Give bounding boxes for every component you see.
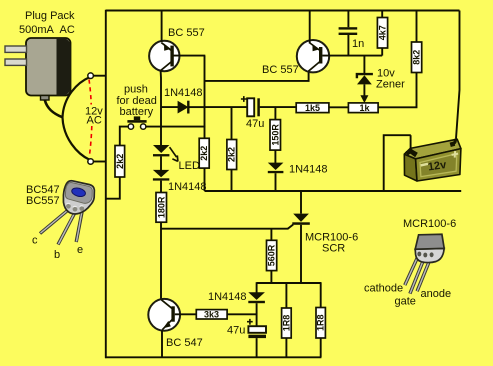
LED2 1N4148 [153,170,169,181]
node upper AC terminal [88,73,94,79]
wire LED1 to LED2 [160,156,162,170]
wire mid horizontal bus [205,190,462,192]
svg-text:180R: 180R [156,196,166,218]
svg-text:AC: AC [60,24,75,36]
svg-text:1R8: 1R8 [316,314,326,331]
LED1 [153,145,169,156]
svg-text:gate: gate [395,296,416,308]
svg-text:MCR100-6: MCR100-6 [403,218,456,230]
svg-text:BC 547: BC 547 [166,337,203,349]
wire Q1 base to column [174,55,206,57]
resistor 560R [270,229,272,241]
wire 560R bottom [270,271,272,284]
wire left rail [105,10,107,358]
wire bottom rail [105,356,321,358]
svg-text:1N4148: 1N4148 [164,87,203,99]
resistor 1R8 second [320,283,322,308]
wire top rail [106,10,460,12]
svg-text:47u: 47u [246,118,264,130]
wire button right to node column [146,126,205,128]
svg-text:b: b [54,249,60,261]
wire cord to lower node [63,118,91,161]
svg-text:SCR: SCR [322,243,345,255]
resistor 180R [156,193,167,223]
svg-text:560R: 560R [267,244,277,266]
svg-text:Zener: Zener [376,79,405,91]
wire to battery negative clip [410,135,412,149]
wire Q3 emitter to bottom rail [161,331,163,358]
svg-text:anode: anode [421,288,452,300]
svg-text:AC: AC [87,115,102,127]
SCR MCR100-6 [288,191,310,283]
transistor Q3 BC547 [148,299,180,331]
svg-text:Plug Pack: Plug Pack [25,10,75,22]
wire 1R8 first bottom [285,338,287,357]
wire 180R to gate wire and Q3 [160,222,162,299]
wire Q3 base to 3k3 [175,313,197,315]
wire gate bus [161,228,288,230]
svg-text:BC 557: BC 557 [168,27,205,39]
svg-text:1N4148: 1N4148 [168,181,207,193]
svg-text:c: c [32,235,38,247]
wire Q1 emitter to top rail [161,11,163,43]
wire 8k2 down to 1k [378,73,417,108]
resistor R 2k2 second [199,138,209,168]
svg-text:battery: battery [120,106,154,118]
wire lower bus to D4 [256,282,258,292]
svg-text:500mA: 500mA [19,24,55,36]
resistor R1 2k2 [115,146,125,178]
wire 3k3 to cap column [227,313,257,315]
node column x204.5 [204,56,206,139]
LED pointer arrow [170,147,178,161]
wire plug cord [45,100,63,117]
capacitor C1 1n [339,11,358,56]
svg-text:push: push [124,84,148,96]
svg-text:47u: 47u [227,325,245,337]
svg-text:LED: LED [179,160,200,172]
svg-text:1N4148: 1N4148 [289,164,328,176]
wire R1 bottom to left rail [106,177,120,199]
TO-92 package MCR100-6 [405,234,444,293]
transistor Q2 BC557 [297,40,329,72]
svg-text:BC 557: BC 557 [262,64,299,76]
svg-text:1k5: 1k5 [305,103,320,113]
wire button left to R1 [120,127,128,146]
resistor 1k [348,103,378,113]
diode D3 1N4148 [268,163,284,191]
wire battery negative riser [384,135,411,191]
battery clip positive [451,139,455,145]
plus sign C3 [247,319,253,325]
wire 1R8 second bottom [320,338,322,357]
battery clip negative [407,148,418,157]
svg-text:1n: 1n [352,38,364,50]
diode D4 1N4148 [248,292,265,326]
resistor 3k3 [196,310,227,319]
wire 4k7 bottom to base wire [381,48,383,56]
wire LED2 to 180R [160,181,162,193]
wire lower node to rail [93,161,105,163]
wire mid row left [205,106,248,108]
svg-text:150R: 150R [270,124,280,146]
svg-text:1k: 1k [359,103,370,113]
wire lower bus [257,282,322,284]
wire Q1 collector column down to LED [160,71,162,146]
capacitor C2 47u [247,98,296,116]
wire cord to upper node [63,77,91,118]
plus sign C2 [241,96,247,102]
wire 1k5 to 1k [329,106,349,108]
push button S1 [127,116,146,129]
svg-text:2k2: 2k2 [227,147,237,162]
diode D1 1N4148 [161,101,205,114]
svg-text:1R8: 1R8 [281,315,291,332]
TO-92 package BC547 BC557 [40,180,96,245]
svg-text:2k2: 2k2 [199,146,209,161]
svg-text:2k2: 2k2 [115,154,125,169]
wire Q2 emitter to top rail [309,11,311,44]
resistor R 2k2 third [227,140,237,170]
wire Q2 base [322,55,382,57]
wire 150R to D3 [274,150,276,163]
svg-text:BC557: BC557 [26,195,60,207]
svg-text:1N4148: 1N4148 [208,291,247,303]
resistor 8k2 [416,11,418,43]
svg-text:e: e [77,244,83,256]
node lower AC terminal [88,159,94,165]
wire top rail to battery positive [456,11,460,139]
svg-text:cathode: cathode [364,283,403,295]
resistor 1R8 first [285,283,287,308]
capacitor C3 47u [248,326,266,357]
12v AC red dashed indicator [89,80,91,105]
resistor 150R [274,107,276,120]
resistor 4k7 [381,11,383,18]
wire 2k2 second bottom [204,168,206,191]
resistor 1k5 [296,103,329,113]
wire column to Q2 collector [205,72,309,81]
wire 2k2 third bottom [231,170,233,192]
transistor Q1 BC557 [149,41,179,71]
plug pack PS1 [5,38,71,100]
svg-text:3k3: 3k3 [204,310,219,320]
zener D2 10v [357,56,373,103]
svg-text:4k7: 4k7 [378,25,388,40]
svg-text:8k2: 8k2 [412,50,422,65]
wire column to 2k2 second [231,107,233,139]
wire upper node to rail [93,75,105,77]
battery BT1 12v [404,139,461,181]
